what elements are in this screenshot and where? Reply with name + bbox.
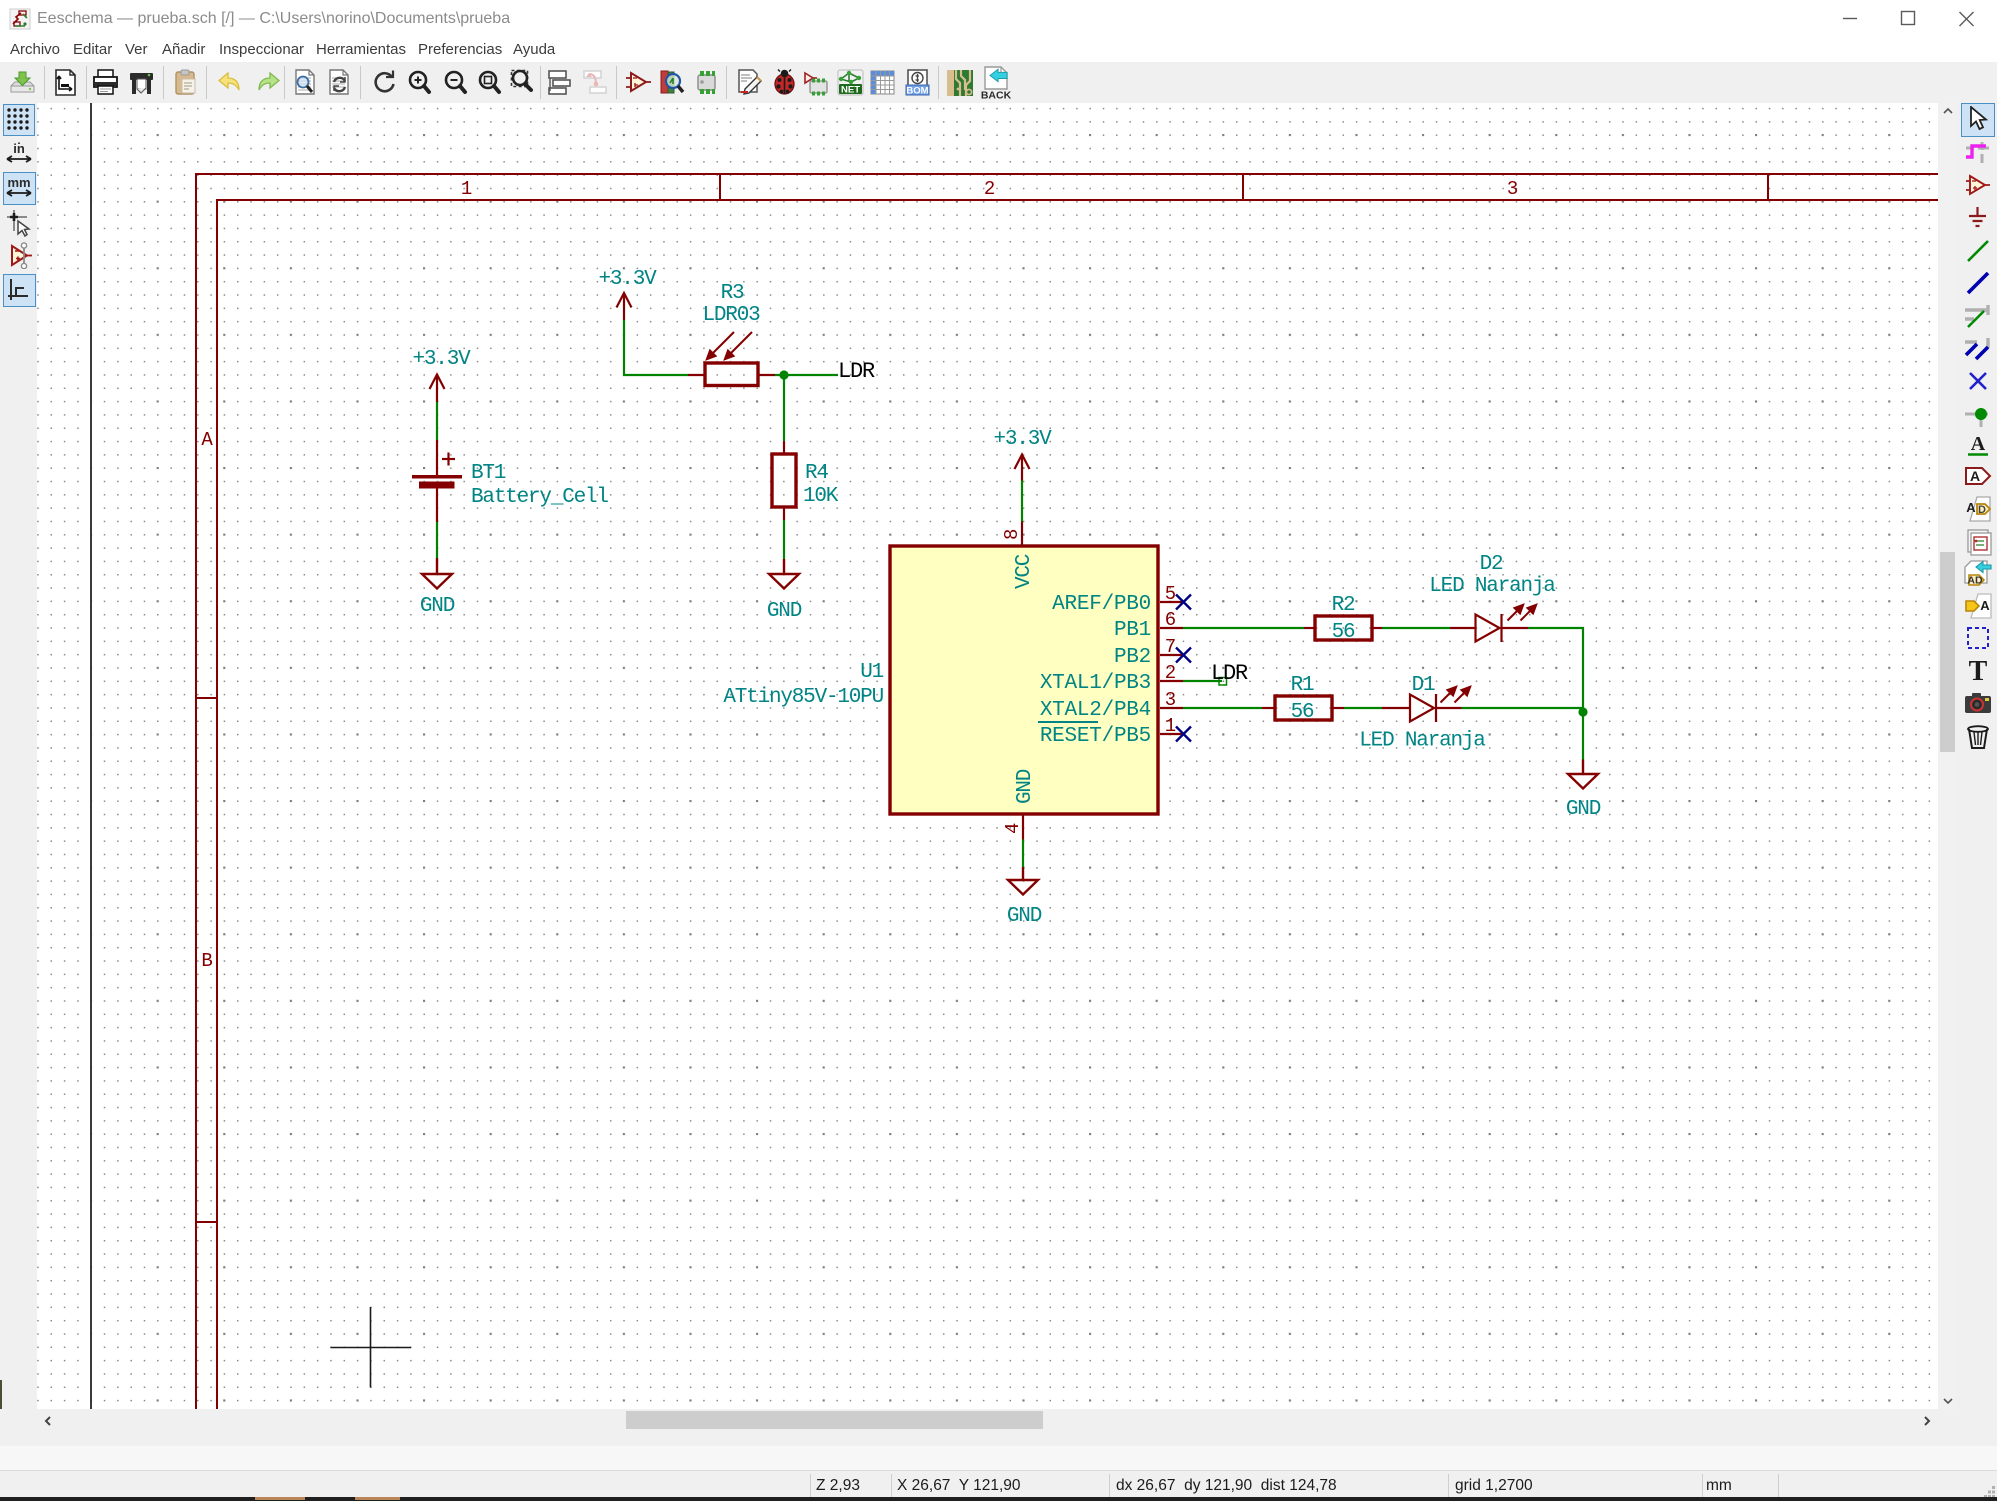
- no-connect pin 5: [1176, 595, 1191, 610]
- page left edge: [90, 103, 92, 1409]
- window buttons: [1830, 5, 1990, 33]
- wire: [783, 375, 785, 441]
- op-amp U1 ATtiny85V-10PU body: [890, 546, 1158, 814]
- resistor R1 value 56: [1262, 696, 1344, 720]
- svg-text:+3.3V: +3.3V: [993, 428, 1052, 451]
- wire: [1528, 628, 1583, 712]
- svg-text:GND: GND: [1566, 798, 1601, 821]
- svg-text:BT1: BT1: [471, 462, 506, 485]
- pin 1 RESET/PB5: [1038, 715, 1183, 748]
- wire: [1582, 712, 1584, 760]
- svg-text:LED Naranja: LED Naranja: [1359, 730, 1485, 753]
- svg-text:A: A: [1971, 433, 1986, 455]
- battery BT1: [412, 440, 462, 522]
- svg-text:RESET/PB5: RESET/PB5: [1040, 725, 1151, 748]
- wire: [783, 520, 785, 559]
- svg-text:AREF/PB0: AREF/PB0: [1052, 593, 1151, 616]
- svg-text:D: D: [1978, 504, 1986, 516]
- svg-text:LDR: LDR: [1211, 661, 1248, 686]
- node dangling end square: [1219, 678, 1227, 686]
- pin 3 XTAL2/PB4: [1040, 689, 1183, 722]
- svg-text:D1: D1: [1412, 674, 1435, 697]
- svg-text:+3.3V: +3.3V: [412, 348, 471, 371]
- svg-text:R3: R3: [721, 282, 744, 305]
- resistor R2 value 56: [1304, 616, 1382, 640]
- ground (R4): [769, 559, 799, 589]
- svg-text:ATtiny85V-10PU: ATtiny85V-10PU: [723, 686, 883, 709]
- pin 4 GND: [1002, 769, 1037, 839]
- svg-text:GND: GND: [1014, 769, 1037, 804]
- wire: [624, 320, 688, 375]
- svg-text:LDR: LDR: [838, 359, 875, 384]
- svg-text:VCC: VCC: [1013, 554, 1036, 589]
- svg-text:BACK: BACK: [981, 90, 1011, 101]
- wire: [775, 374, 838, 376]
- svg-text:A: A: [1966, 500, 1976, 515]
- wire: [436, 402, 438, 440]
- pin 6 PB1: [1114, 609, 1183, 642]
- wire: [1183, 707, 1262, 709]
- node LDR junction: [779, 370, 788, 379]
- svg-text:GND: GND: [420, 595, 455, 618]
- wire: [1344, 707, 1382, 709]
- wire: [1022, 840, 1024, 868]
- svg-text:1: 1: [1165, 715, 1176, 737]
- svg-text:10K: 10K: [803, 485, 839, 508]
- wire: [1183, 627, 1304, 629]
- sheet frame outer: [196, 174, 1938, 1409]
- svg-text:A: A: [1970, 468, 1980, 484]
- svg-text:GND: GND: [1007, 905, 1042, 928]
- svg-text:56: 56: [1291, 701, 1314, 724]
- svg-text:PB2: PB2: [1114, 646, 1151, 669]
- pin 8 VCC: [1001, 522, 1036, 590]
- svg-text:U1: U1: [860, 661, 883, 684]
- wire: [1462, 707, 1584, 709]
- resistor R3 LDR03: [688, 332, 775, 386]
- svg-text:LDR03: LDR03: [702, 304, 760, 327]
- pin 2 XTAL1/PB3: [1040, 662, 1183, 695]
- svg-text:PB1: PB1: [1114, 619, 1151, 642]
- no-connect pin 1: [1176, 727, 1191, 742]
- power +3.3V (U1 VCC): [1015, 455, 1030, 481]
- ground (battery): [422, 558, 452, 589]
- svg-text:mm: mm: [7, 175, 30, 190]
- svg-text:GND: GND: [767, 600, 802, 623]
- frame labels: [201, 178, 1518, 972]
- ground (U1): [1008, 867, 1038, 895]
- svg-text:+3.3V: +3.3V: [598, 268, 657, 291]
- svg-text:XTAL2/PB4: XTAL2/PB4: [1040, 699, 1151, 722]
- wire: [1382, 627, 1450, 629]
- svg-text:2: 2: [1165, 662, 1176, 684]
- LED D2: [1450, 604, 1537, 642]
- svg-text:7: 7: [1165, 636, 1175, 658]
- LED D1: [1382, 686, 1471, 722]
- ground (LED common): [1568, 760, 1598, 789]
- svg-text:Battery_Cell: Battery_Cell: [471, 486, 608, 509]
- svg-text:3: 3: [1507, 178, 1518, 200]
- svg-text:D2: D2: [1480, 553, 1503, 576]
- svg-text:XTAL1/PB3: XTAL1/PB3: [1040, 672, 1151, 695]
- resistor R4: [772, 441, 796, 520]
- svg-text:AD: AD: [1967, 575, 1983, 587]
- svg-text:BOM: BOM: [906, 86, 928, 97]
- svg-text:1: 1: [461, 178, 472, 200]
- svg-text:6: 6: [1165, 609, 1176, 631]
- power +3.3V (R3): [617, 293, 632, 320]
- wire: [1021, 481, 1023, 522]
- svg-text:A: A: [201, 429, 213, 451]
- svg-text:5: 5: [1165, 583, 1176, 605]
- svg-text:B: B: [201, 950, 212, 972]
- svg-text:56: 56: [1332, 621, 1355, 644]
- svg-text:A: A: [1980, 598, 1990, 613]
- wire: [436, 522, 438, 558]
- power +3.3V (battery): [430, 375, 445, 403]
- no-connect pin 7: [1176, 648, 1191, 663]
- node junction: [1578, 707, 1587, 716]
- svg-text:NET: NET: [841, 85, 860, 96]
- svg-text:R1: R1: [1291, 674, 1314, 697]
- svg-text:T: T: [1969, 656, 1988, 684]
- cursor crosshair: [331, 1307, 412, 1388]
- svg-text:R4: R4: [805, 462, 828, 485]
- svg-text:R2: R2: [1332, 594, 1355, 617]
- svg-text:4: 4: [1002, 823, 1024, 834]
- svg-text:8: 8: [1001, 529, 1023, 540]
- svg-text:LED Naranja: LED Naranja: [1429, 575, 1555, 598]
- pin 5 AREF/PB0: [1052, 583, 1183, 616]
- pin 7 PB2: [1114, 636, 1183, 669]
- wire (pin2 stub to LDR label): [1183, 680, 1222, 682]
- svg-text:2: 2: [984, 178, 995, 200]
- svg-text:3: 3: [1165, 689, 1176, 711]
